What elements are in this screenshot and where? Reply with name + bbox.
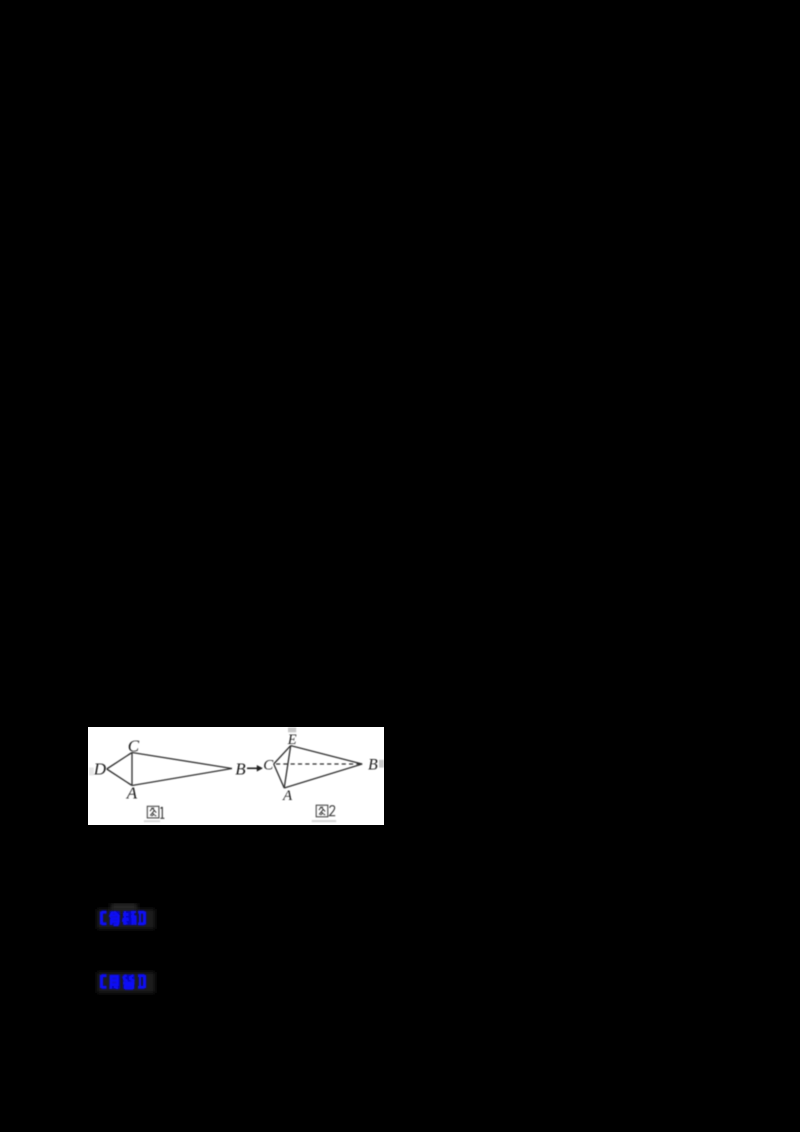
selection handle smudge top (above E) [288,728,296,733]
svg-text:C: C [128,737,140,756]
svg-text:A: A [126,783,138,802]
wire: dashed segment C-B [276,763,362,765]
wire: segment D-C [107,753,132,770]
selection handle smudge left (beside D) [89,768,94,776]
smudge bar under caption 2 [312,820,337,822]
char 1 strokes [110,912,120,926]
svg-text:A: A [282,788,293,804]
char 2 strokes [123,975,135,989]
caption 图2 [316,805,335,817]
bracket right [138,975,145,988]
wire: segment C-E [274,746,291,764]
wire: segment E-A [284,746,291,788]
smudge bar under caption 1 [144,820,160,822]
svg-text:B: B [235,760,246,779]
blue heading 2 [94,967,158,1002]
svg-text:E: E [287,732,297,748]
svg-text:D: D [93,760,107,779]
figure 1: triangle fan D-C-A-B [107,753,232,786]
labels fig 1 [93,737,247,803]
bracket right [138,912,145,925]
svg-text:B: B [368,756,378,773]
figure image panel (white) [88,727,384,825]
wire: segment C-B [132,753,232,769]
blue heading 1 [94,903,158,938]
wire: segment D-A [107,769,132,786]
wire: segment C-A [274,764,285,788]
caption 图1 [147,806,164,818]
char 2 strokes [123,911,136,925]
transform arrow between figures [247,765,263,771]
wire: segment A-B [284,764,362,788]
bracket left [102,912,107,925]
bracket left [102,975,107,988]
wire: segment C-A [131,753,133,786]
char 1 strokes [110,977,119,990]
labels fig 2 [263,732,378,804]
wire: segment E-B [291,746,363,764]
selection handle smudge right (beside B fig2) [379,760,384,768]
svg-text:C: C [263,758,274,774]
wire: segment A-B [132,769,232,786]
figure 2: tetrahedron E-C-A-B [274,746,363,788]
